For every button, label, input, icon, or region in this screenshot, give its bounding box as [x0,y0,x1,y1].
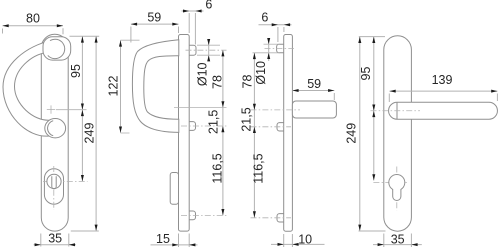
fixing lug bottom on P2 [187,211,196,220]
ext line left dim 10 fig3 [283,234,285,247]
svg-text:59: 59 [307,77,321,91]
lower head of H1 [45,119,66,138]
svg-text:6: 6 [261,10,268,24]
tick bottom lug edge fig3 [253,52,280,54]
ext line right dim 6 fig3 [283,27,285,32]
dim line 10 fig3 [271,243,325,245]
centerline vertical cylinder P4 [396,167,398,211]
cross mark on P1 (vertical) [50,105,52,113]
svg-text:21,5: 21,5 [240,107,254,131]
ext line right dim 35 fig4 [410,234,412,248]
lever handle L4 (front view) [389,102,498,119]
svg-text:35: 35 [48,231,62,245]
svg-text:Ø10: Ø10 [254,61,268,85]
svg-text:10: 10 [298,232,312,246]
svg-text:249: 249 [344,123,358,144]
tick bottom of dim 122 [121,132,130,134]
fixing lug middle on P3 [277,123,286,131]
lever handle L3 (side view) [292,101,336,118]
dim line 6 fig3 [259,24,292,26]
ext line left dim 35 fig4 [383,234,385,248]
chain dim line 78-21,5-116,5 fig3 [253,53,255,218]
ext line right dim 10 fig3 [291,234,293,247]
svg-text:95: 95 [359,67,373,81]
dim line 80 [3,25,64,27]
centerline top lug P3 [265,48,295,50]
centerline vertical through cylinder P1 [53,166,55,210]
ext line right dim 6 fig2 [194,13,196,45]
lower neck seam arc of H1 [48,121,54,136]
lever axis centerline fig4 [371,110,421,112]
ext line right dim 35 fig1 [68,234,70,247]
ext line left dim 35 fig1 [40,234,42,247]
lever axis centerline fig3 [251,109,301,111]
svg-text:6: 6 [205,0,212,12]
plate P3 (side view of lever plate) [284,35,293,232]
dim line 249 fig1 [95,36,97,231]
fixing lug top on P2 [187,45,197,55]
upper neck seam arc of H1 [48,39,65,58]
dim line Ø10 fig3 [268,39,270,61]
dim line 122 fig2 [120,40,122,133]
tick at handle axis fig1 [56,109,87,111]
leader from P4 top to vertical dims [359,36,385,38]
leader from P1 top to vertical dims [70,35,100,37]
plate P1 (front view, pull-handle backplate) [41,34,68,231]
centerline middle lug P3 [251,126,292,128]
ext line left dim 6 fig3 [277,27,279,42]
plate P2 (side view of P1) [179,35,190,232]
tick line at grip bottom level fig2 [174,107,227,109]
svg-text:35: 35 [391,232,405,246]
tick top lug edge fig3 [264,43,280,45]
svg-text:15: 15 [156,232,170,246]
dim line 95 and chain to cylinder, fig1 [81,36,83,181]
pull handle H1 C-shaped tube (front view) [3,40,52,136]
svg-text:249: 249 [82,123,96,144]
svg-text:116,5: 116,5 [251,153,265,183]
euro profile keyhole on P4 [389,175,405,201]
PZ stadium cutout on P1 [44,169,63,204]
fixing lug top on P3 [277,44,287,53]
dim line 59 fig3 [292,90,334,92]
centerline top lug P2 [186,49,227,51]
dim line 59 fig2 [131,23,179,25]
svg-text:139: 139 [432,73,453,87]
upper head/shoulder of H1 [43,37,71,60]
dim line 249 fig4 [359,37,361,231]
dim line 35 fig4 [373,244,422,246]
dim line 139 fig4 [390,90,498,92]
chain dim line 78-21,5-116,5 fig2 [222,50,224,215]
svg-text:116,5: 116,5 [210,153,224,183]
svg-text:78: 78 [240,75,254,89]
svg-text:78: 78 [210,75,224,89]
cylinder key slot on P1 [52,176,56,189]
ext line left dim 139 fig4 [388,94,390,103]
dim line 15 fig2 [151,244,198,246]
ext line right dim 15 fig2 [188,234,190,248]
centerline middle lug P2 [181,125,227,127]
fixing lug bottom on P3 [277,214,286,222]
ext line right dim 139 fig4 [496,94,498,102]
svg-text:59: 59 [147,11,161,25]
centerline horizontal cylinder P4 [373,182,408,184]
bottom leader fig4 [359,230,386,232]
dim line 95 and chain to cylinder fig4 [373,37,375,181]
plate P4 (front view, lever backplate) [384,36,412,231]
tick top of dim 122 [121,39,140,41]
cylinder circle on P1 [47,174,61,188]
centerline horizontal through cylinder P1 [43,180,88,182]
tick bottom lug edge fig2 [197,54,220,56]
centerline bottom lug P3 [251,217,292,219]
svg-text:122: 122 [107,76,121,97]
dim line 6 fig2 [182,10,204,12]
svg-text:95: 95 [69,64,83,78]
cylinder housing bump on P2 [170,173,178,205]
centerline bottom lug P2 [181,214,227,216]
ext line left dim 6 fig2 [188,13,190,33]
junction line lever neck L4 [396,102,398,119]
ext line left of dim 80 [2,29,4,34]
ext line right dim 59 fig3 [333,93,335,100]
dim line Ø10 fig2 [208,40,210,62]
svg-text:80: 80 [26,11,40,25]
dim line 35 fig1 [34,244,76,246]
ext line left dim 15 fig2 [178,234,180,248]
cross mark on P1 (horizontal) [47,109,55,111]
ext line right of dim 80 [62,28,64,34]
svg-text:Ø10: Ø10 [196,62,210,86]
tick top lug edge fig2 [197,44,220,46]
ext line right dim 59 fig2 [178,27,180,34]
svg-text:21,5: 21,5 [206,110,220,134]
pull handle grip H2 (side view) [132,40,178,133]
ext line left dim 59 fig2 [130,27,132,43]
fixing lug middle on P2 [187,122,196,131]
bottom leader fig1 [71,230,99,232]
